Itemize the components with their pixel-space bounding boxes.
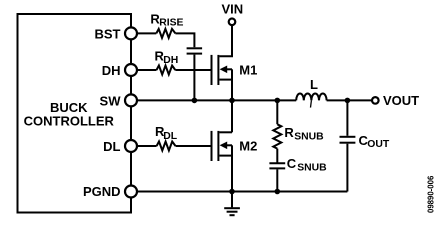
svg-text:09890-006: 09890-006 <box>427 175 436 213</box>
junction node RSNUB / SW <box>275 98 281 104</box>
wire COUT to PGND rail <box>346 144 348 192</box>
wire CSNUB to PGND rail <box>276 169 278 191</box>
svg-text:VIN: VIN <box>221 1 243 16</box>
wire SW rail to M2 drain <box>231 100 233 132</box>
transistor M1 drain stub and wire to VIN <box>219 25 232 56</box>
svg-text:L: L <box>310 77 318 92</box>
wire BST pin to RRISE <box>131 32 156 34</box>
capacitor CSNUB top plate <box>269 162 285 164</box>
transistor M2 source stub <box>219 155 232 157</box>
wire DH pin to RDH <box>131 69 157 71</box>
wire RRISE to bootstrap cap <box>175 33 194 47</box>
svg-text:SW: SW <box>100 93 122 108</box>
svg-text:RISE: RISE <box>159 18 183 29</box>
capacitor bootstrap top plate <box>187 47 203 49</box>
terminal VIN circle <box>229 19 236 26</box>
transistor M1 source stub <box>219 79 232 81</box>
wire DL pin to RDL <box>131 145 157 147</box>
inductor L <box>296 93 326 100</box>
transistor M2 gate bar <box>211 131 213 161</box>
svg-text:OUT: OUT <box>367 139 390 150</box>
transistor M1 channel bar <box>217 55 219 85</box>
junction node COUT / VOUT <box>345 98 351 104</box>
junction node BST cap / SW <box>192 98 198 104</box>
capacitor COUT bottom plate <box>340 142 356 144</box>
transistor M2 body arrow <box>220 142 228 150</box>
transistor M1 body arrow <box>220 66 228 74</box>
resistor RSNUB leads <box>276 100 278 162</box>
ground symbol <box>224 208 240 215</box>
resistor RRISE <box>156 29 175 38</box>
wire M1 source to SW rail <box>231 69 233 100</box>
svg-text:BST: BST <box>95 26 121 41</box>
svg-text:PGND: PGND <box>83 184 121 199</box>
resistor RSNUB <box>273 124 281 148</box>
transistor M1 body lead <box>227 68 232 70</box>
junction node CSNUB / PGND <box>275 189 281 195</box>
svg-text:DH: DH <box>163 55 178 66</box>
wire ground stem <box>231 192 233 208</box>
wire SW rail <box>131 99 296 101</box>
pin DL terminal <box>125 140 137 152</box>
wire bootstrap cap to SW rail <box>193 55 195 101</box>
wire L to VOUT <box>327 99 372 101</box>
svg-text:DL: DL <box>163 131 178 142</box>
junction node M1 source / SW <box>229 98 235 104</box>
transistor M2 channel bar <box>217 131 219 161</box>
transistor M2 drain stub <box>219 131 232 133</box>
svg-text:VOUT: VOUT <box>383 93 419 108</box>
transistor M1 gate bar <box>211 55 213 85</box>
junction node M2 source / PGND <box>229 189 235 195</box>
svg-text:SNUB: SNUB <box>297 163 327 174</box>
terminal VOUT circle <box>372 97 379 104</box>
wire M2 source to PGND rail <box>231 145 233 191</box>
pin SW terminal <box>125 94 137 106</box>
wire RDH to M1 gate <box>175 69 211 71</box>
wire VOUT node to COUT <box>346 100 348 135</box>
svg-text:R: R <box>284 125 294 140</box>
svg-text:DL: DL <box>103 139 120 154</box>
resistor RDH <box>157 66 176 75</box>
svg-text:C: C <box>287 156 297 171</box>
inductor center tail <box>310 100 313 107</box>
buck controller box U1 <box>18 14 132 213</box>
svg-text:M2: M2 <box>239 139 257 154</box>
svg-text:M1: M1 <box>239 63 257 78</box>
pin PGND terminal <box>125 186 137 198</box>
svg-text:DH: DH <box>102 63 121 78</box>
svg-text:SNUB: SNUB <box>294 131 324 142</box>
pin BST terminal <box>125 27 137 39</box>
wire RDL to M2 gate <box>176 145 212 147</box>
capacitor bootstrap bottom plate <box>187 53 203 55</box>
capacitor CSNUB bottom plate <box>269 167 285 169</box>
svg-text:CONTROLLER: CONTROLLER <box>24 113 115 128</box>
capacitor COUT top plate <box>340 136 356 138</box>
pin DH terminal <box>125 64 137 76</box>
transistor M2 body lead <box>227 144 232 146</box>
wire PGND rail <box>131 191 347 193</box>
resistor RDL <box>157 142 176 151</box>
